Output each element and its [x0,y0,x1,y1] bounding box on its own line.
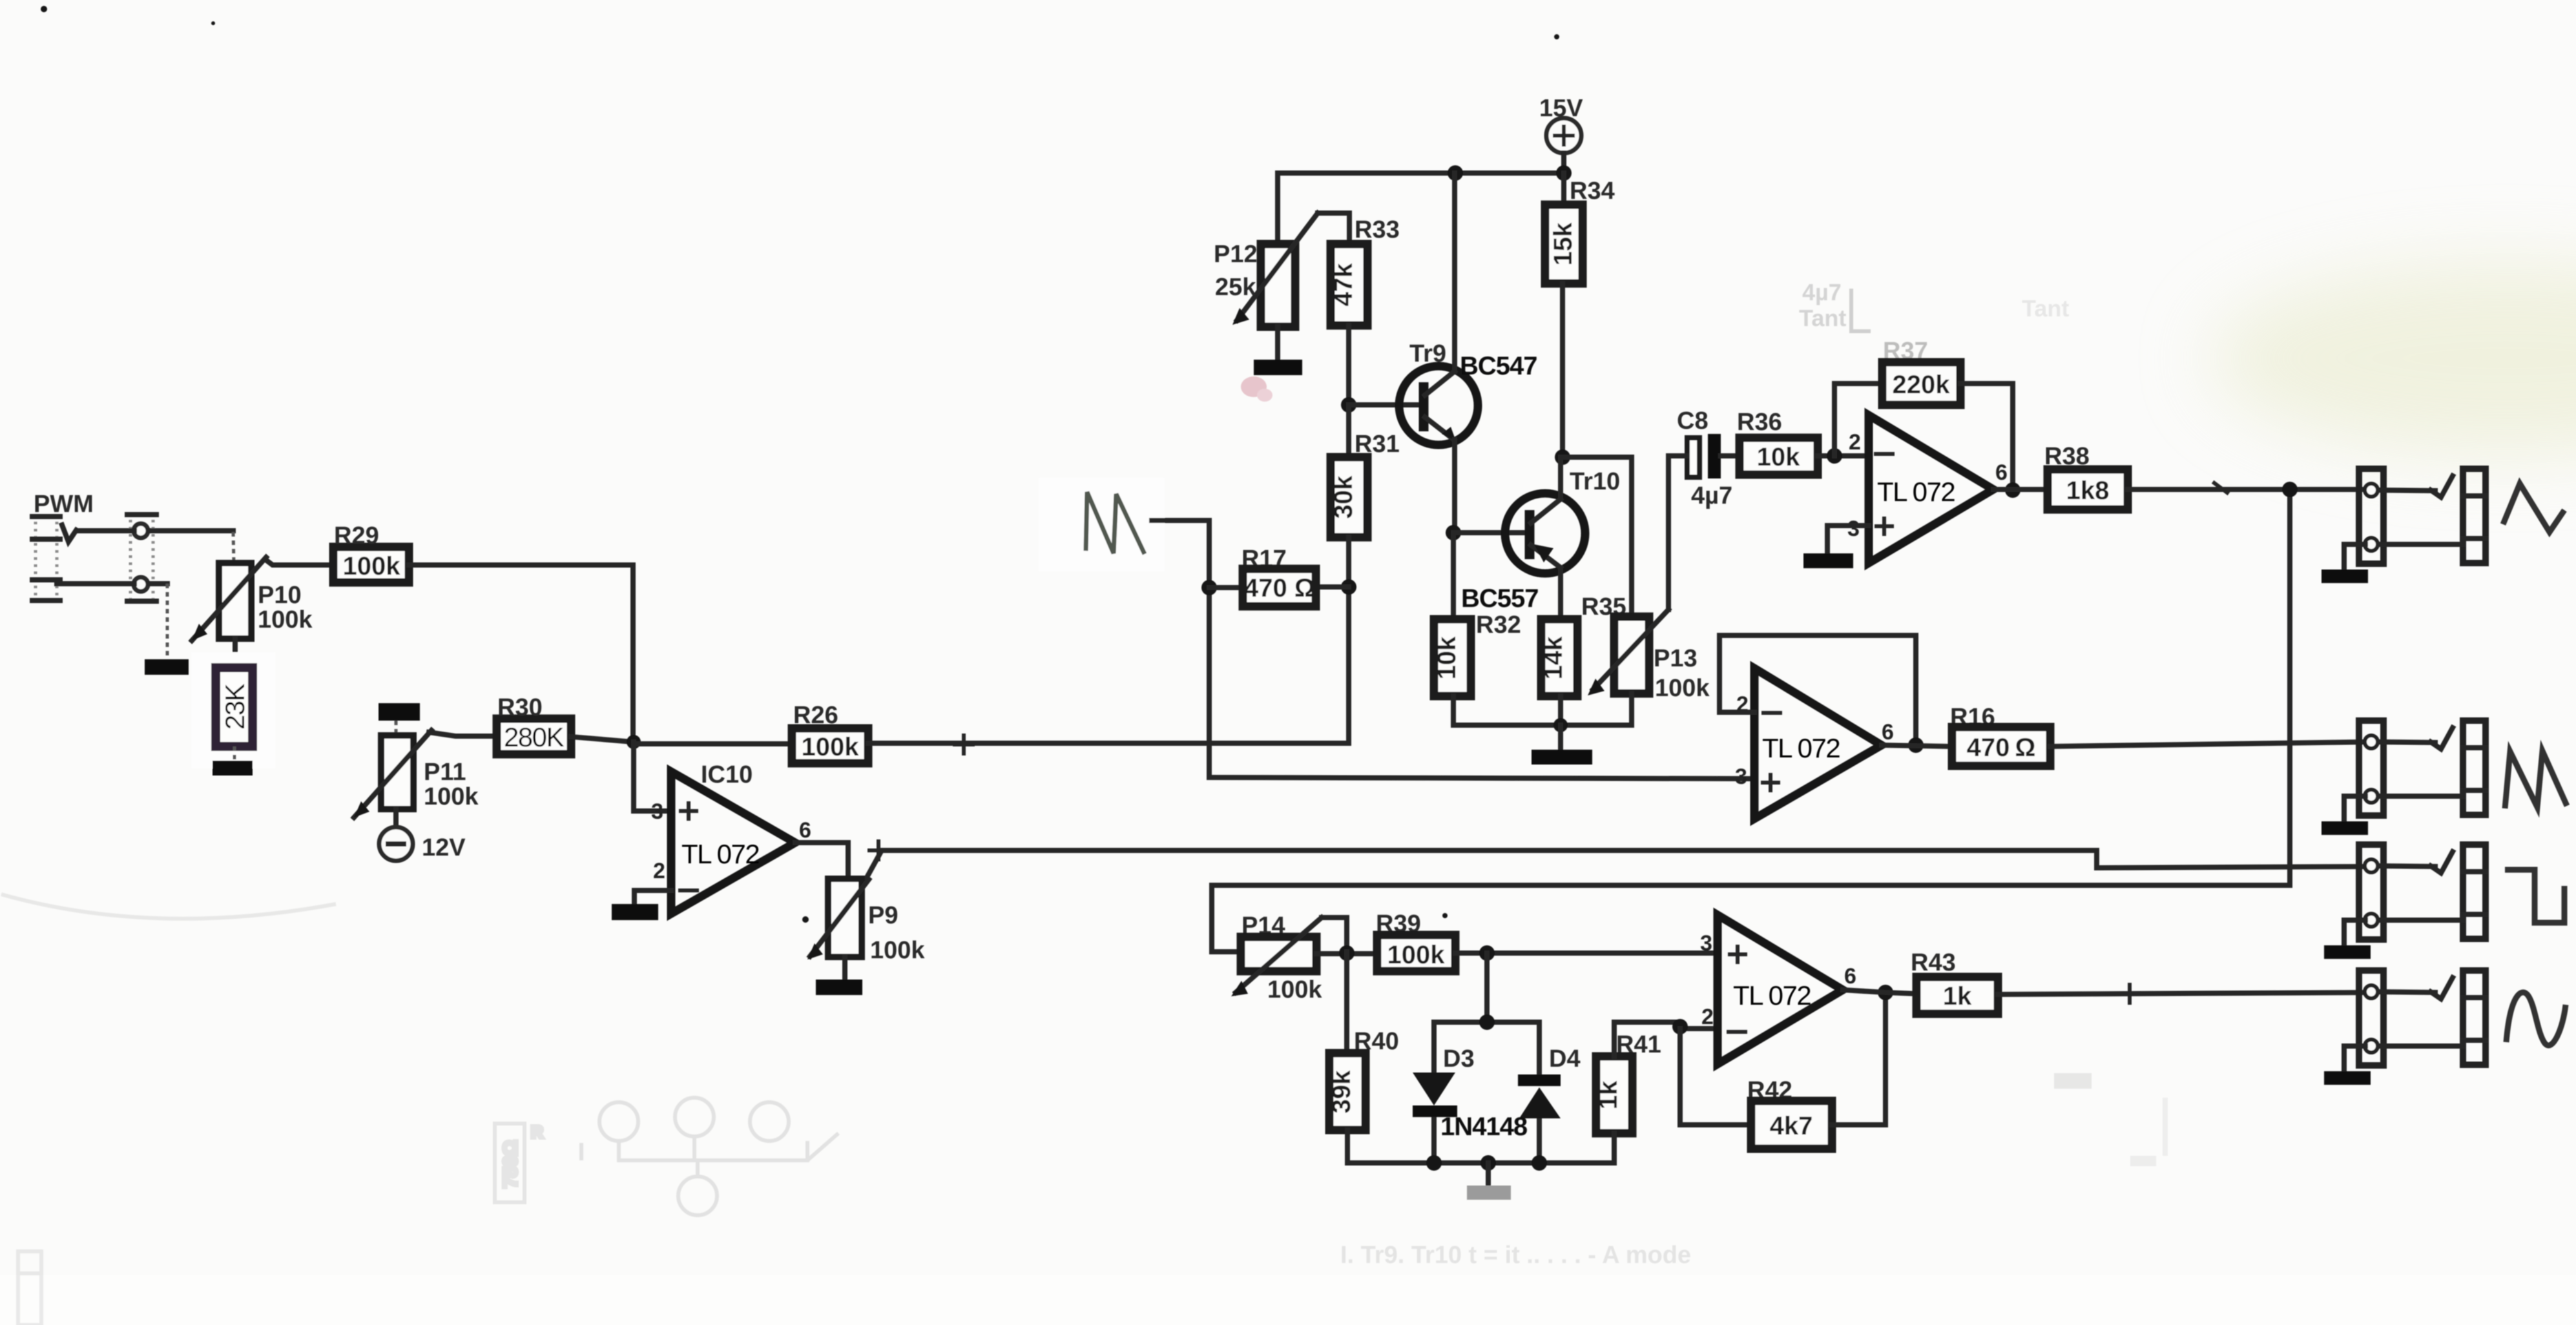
resistor R33 [1331,244,1367,325]
node op2 output [1908,737,1924,753]
svg-text:P12: P12 [1214,241,1258,268]
output jack J2 (sawtooth) [2359,721,2486,816]
node op4 output [1878,985,1893,1000]
node R34/Tr10/P13 [1555,449,1570,465]
wire bus corner to P14 [1212,949,1241,954]
15V supply symbol [1546,118,1581,153]
svg-text:100k: 100k [1387,941,1446,969]
node P14/R39/R40 [1339,945,1355,961]
svg-text:100k: 100k [1267,976,1322,1003]
svg-text:R36: R36 [1737,409,1782,436]
wire R41 bottom to rail [1612,1133,1617,1163]
svg-text:14k: 14k [1539,636,1568,679]
wire R16 to jack2 [2050,742,2367,746]
node R39/diodes [1479,945,1495,961]
node bottom rail [1553,718,1568,732]
wire R36 to op1 pin2 [1818,453,1869,458]
potentiometer P14 [1231,918,1322,996]
ghost resistor left-bottom [495,1122,543,1202]
svg-text:220k: 220k [1893,371,1951,399]
J2 tip contact [2365,735,2378,748]
wire R38 to jack1 [2128,487,2365,492]
ground under P9 [816,980,862,995]
wire Tr9 collector to rail [1452,173,1457,371]
resistor R26 [792,728,868,763]
output jack J4 (sine) [2359,971,2486,1065]
output jack J3 (square) [2359,845,2486,940]
potentiometer P10 [192,557,266,641]
bottom rail R32 R35 P13 [1453,693,1632,725]
J1 sleeve contact [2365,538,2378,551]
ghost 4u7 Tant note [1799,279,1871,331]
wire Tr10 emitter to R35 [1558,568,1563,619]
speck dots [1554,34,1559,39]
wire R40 to bottom rail [1347,1130,1614,1163]
svg-text:TL 072: TL 072 [1733,980,1811,1011]
cross tick on sine wire [2121,985,2139,1003]
triangle wave icon [2503,484,2564,532]
wire node to R26 [634,741,792,746]
wire P12 to ground [1275,327,1280,360]
svg-text:10k: 10k [1757,443,1800,471]
dotted stem P11 top [395,721,398,735]
ground stem VCO [1558,725,1563,750]
dotted drop to ground [166,584,169,659]
svg-text:15k: 15k [1549,222,1577,265]
wire P10 wiper to R29 [265,559,333,565]
op-amp U4 TL072 [1718,915,1843,1064]
svg-text:1k8: 1k8 [2066,477,2110,505]
svg-text:100k: 100k [802,733,860,761]
square bus step down to jack3 [2097,850,2367,868]
node op1 output [2005,482,2020,498]
wire op2 output to R16 [1882,745,1952,746]
resistor R31 [1346,405,1351,457]
svg-text:D3: D3 [1443,1045,1475,1073]
wire IC10 pin2 to ground [634,890,671,904]
gray ground bottom [1467,1186,1511,1200]
node Tr9/Tr10/R32 [1446,525,1461,540]
wire P14 to R39 [1316,951,1377,956]
ground under P12 [1254,360,1302,375]
J1 tip contact [2365,484,2378,497]
jog output to square bus [864,850,2097,882]
svg-text:Tant: Tant [1799,305,1846,331]
top supply rail [1278,170,1564,176]
J4 sleeve wire [2378,1043,2463,1049]
resistor R30 [497,719,571,754]
cross tick on wire [955,735,973,754]
svg-text:P13: P13 [1654,645,1698,672]
resistor R17 [1209,587,1349,588]
wire P12 riser [1275,173,1280,244]
pink scan smudge under P12 ground [1241,376,1272,402]
svg-text:6: 6 [1844,964,1856,989]
transistor Tr9 [1399,366,1478,445]
sine wave icon [2506,992,2566,1045]
node jack1 wire / triangle bus [2282,482,2298,497]
node at IC10 input [627,735,641,749]
wire R26 to integrator node [868,587,1349,743]
faint scan marks lower right [2054,1073,2165,1166]
wire base node to Tr9 [1349,402,1419,407]
ghost transistor cluster bottom [581,1098,838,1215]
wire node to P13 top [1563,457,1632,617]
svg-text:750Ω: 750Ω [500,1140,521,1188]
J4 ground link [2344,1046,2365,1071]
svg-text:6: 6 [1995,460,2008,485]
op-amp U1 TL072 [1869,415,1993,563]
svg-text:Tr10: Tr10 [1570,468,1620,495]
wire C8 to P13 wiper [1668,456,1687,610]
resistor 23K [216,668,253,746]
ground at J1 [2322,570,2368,583]
ground at op1 [1803,553,1853,568]
svg-text:30k: 30k [1329,475,1358,519]
J3 sleeve wire [2378,918,2463,923]
svg-text:10k: 10k [1433,636,1461,679]
svg-text:280K: 280K [504,722,565,752]
J1 switch wire and tick [2378,490,2435,491]
resistor R29 [333,547,409,582]
svg-text:4µ7: 4µ7 [1691,482,1732,509]
svg-text:R43: R43 [1911,949,1956,976]
svg-text:25k: 25k [1215,274,1256,301]
svg-text:100k: 100k [258,606,313,633]
capacitor C8 [1687,434,1721,478]
J3 switch wire and tick [2378,866,2435,867]
wire R41 top to op4 pin2 [1614,1022,1718,1056]
svg-text:TL 072: TL 072 [1877,477,1955,507]
svg-text:100k: 100k [343,552,401,580]
wire op1 output to R38 [1993,487,2048,492]
resistor R16 [1952,727,2050,766]
svg-text:470 Ω: 470 Ω [1967,734,2036,762]
svg-text:1N4148: 1N4148 [1440,1113,1528,1141]
J4 tip contact [2365,985,2378,998]
svg-text:100k: 100k [870,937,925,964]
wire R33 to Tr9 base node [1346,325,1351,405]
P14 wiper jog to output node [1322,918,1347,952]
svg-text:BC557: BC557 [1461,584,1539,613]
white patch behind 23K [191,652,275,768]
wire 15V to rail [1561,153,1566,173]
P12 wiper jog to R33 [1318,213,1349,244]
wire R43 to jack4 [1998,992,2367,994]
integrator loop bottom to op2 pin3 [1209,777,1754,779]
potentiometer P9 [807,879,869,960]
wire op1 pin3 to ground [1827,526,1869,553]
J3 sleeve contact [2365,914,2378,927]
sawtooth input waveform symbol [1086,492,1145,554]
svg-text:BC547: BC547 [1460,352,1537,380]
svg-text:2: 2 [1701,1005,1714,1029]
wire node down to R32 [1451,533,1456,619]
potentiometer P13 [1588,610,1668,695]
svg-text:R33: R33 [1355,216,1400,243]
potentiometer P11 [354,730,431,817]
ground stem bottom [1486,1163,1491,1186]
normalled switch jack [127,513,156,604]
dotted drop to P10 [233,532,234,563]
bar above P11 [379,703,420,721]
resistor R38 [2048,469,2128,509]
svg-text:R29: R29 [334,522,379,550]
J1 sleeve wire [2378,542,2463,547]
svg-text:1k: 1k [1943,982,1972,1011]
feedback riser op1 [1834,384,1882,456]
svg-text:Tr9: Tr9 [1409,340,1446,367]
svg-text:D4: D4 [1549,1045,1581,1073]
op-amp IC10 [671,772,795,914]
ground under VCO [1532,750,1592,765]
ground at IC10 [612,904,658,920]
diode D4 [1518,1022,1561,1163]
wire saw symbol to R17 loop [1152,520,1209,777]
wire R40 drop [1344,952,1349,1053]
wire Tr10 collector up [1558,457,1563,499]
ground under input jack [145,659,189,675]
feedback return op4 [1832,992,1885,1125]
wire node to IC10 pin3 [634,742,671,811]
svg-text:P11: P11 [424,759,466,786]
feedback drop op4 [1680,1029,1751,1125]
J3 tip contact [2365,859,2378,872]
wire IC10 output to P9 [795,843,848,879]
diode top rail [1434,1020,1539,1025]
resistor R34 [1561,173,1566,205]
output jack J1 (triangle) [2359,469,2486,564]
vertical drop jack1 node to triangle bus [2287,489,2292,885]
resistor R40 [1329,1053,1366,1130]
sawtooth wave icon [2505,751,2567,808]
wire P10 bottom to 23K [233,639,238,668]
square wave icon [2505,870,2564,923]
svg-text:39k: 39k [1327,1070,1356,1113]
svg-text:3: 3 [1700,931,1712,956]
svg-text:Tant: Tant [2022,295,2069,322]
svg-text:R30: R30 [497,694,543,721]
node rail/R34 [1556,165,1572,181]
wire PWM top contact to P10 [78,528,233,533]
J2 switch wire and tick [2378,742,2435,743]
wire C8 to R36 [1721,453,1740,458]
svg-text:12V: 12V [422,834,466,861]
wire P11 wiper to R30 [429,732,497,736]
svg-text:P10: P10 [258,582,302,609]
resistor R42 [1751,1101,1832,1149]
resistor R32 [1434,619,1471,696]
resistor R39 [1377,935,1455,971]
wire R34 to Tr10 collector node [1560,283,1565,457]
node R31/R17 [1341,579,1356,595]
J4 switch wire and tick [2378,992,2435,992]
svg-text:23K: 23K [220,683,250,730]
wire node down to diode rail [1484,953,1490,1022]
svg-text:4µ7: 4µ7 [1802,279,1842,305]
svg-text:3: 3 [1735,765,1747,789]
transistor Tr10 [1505,493,1585,573]
diode D3 [1413,1022,1457,1163]
wire R39 to op4 pin3 [1455,950,1718,956]
resistor R35 [1541,619,1577,696]
ghost jack bottom-left corner [18,1251,41,1325]
nodes on bottom rail [1426,1155,1442,1171]
svg-text:6: 6 [799,818,811,843]
triangle bus from P14 loop up and right to jack1 drop [1212,885,2290,952]
wire Tr9 emitter down [1452,440,1457,533]
wire R29 to IC10 node [409,565,633,741]
svg-text:PWM: PWM [34,491,94,518]
J2 sleeve wire [2378,794,2463,799]
J3 ground link [2344,920,2365,945]
wire R30 to node [571,737,633,742]
wire PWM sleeve to ground [57,581,167,586]
svg-text:47k: 47k [1329,263,1358,306]
svg-text:2: 2 [1849,430,1861,455]
J1 ground link [2344,544,2365,570]
J4 sleeve contact [2365,1040,2378,1053]
resistor R43 [1916,977,1998,1014]
svg-text:2: 2 [653,859,665,883]
resistor R36 [1740,438,1818,475]
svg-text:TL 072: TL 072 [1762,733,1840,763]
node op1 inverting input [1827,448,1842,464]
svg-text:100k: 100k [424,783,479,810]
svg-text:C8: C8 [1677,407,1709,435]
svg-text:100k: 100k [1655,675,1710,702]
node R17 left [1201,580,1217,595]
wire P9 to ground [842,957,847,980]
jack contact circles [134,524,148,538]
potentiometer P12 [1232,213,1318,327]
white patch behind saw symbol [1039,478,1165,571]
ground at J4 [2324,1071,2371,1085]
node rail/Tr9 [1448,165,1463,181]
svg-text:P9: P9 [868,902,898,929]
node op4 inverting [1672,1019,1688,1034]
ghost page-bleed arc bottom-left [1,894,336,919]
svg-text:3: 3 [1847,517,1860,541]
svg-text:IC10: IC10 [701,761,753,788]
ground at J3 [2324,945,2371,959]
feedback loop op2 [1719,635,1916,745]
svg-text:3: 3 [651,799,663,824]
svg-text:R: R [531,1122,543,1142]
svg-text:R26: R26 [793,702,838,729]
wire R31 to R17 node [1346,537,1351,587]
resistor R37 [1882,362,1960,405]
resistor R41 [1596,1056,1632,1133]
svg-text:1k: 1k [1594,1080,1623,1109]
node diode rail [1479,1014,1495,1030]
cross tick on square bus [869,841,888,859]
jack tip contact tick [62,525,76,542]
wire P11 to -12V [393,809,399,827]
svg-text:4k7: 4k7 [1770,1112,1813,1140]
J2 sleeve contact [2365,790,2378,803]
svg-text:R32: R32 [1476,611,1521,639]
node R33/R31/base [1341,397,1356,413]
svg-text:I. Tr9. Tr10 t = it .. .: I. Tr9. Tr10 t = it .. . . . - A mode [1340,1242,1691,1269]
J2 ground link [2344,796,2365,821]
cross tick on jack1 wire [2214,483,2227,493]
-12V source symbol [379,827,413,861]
feedback return op1 [1960,384,2013,490]
wire node to Tr10 base [1453,530,1526,535]
input jack socket (dashed) [32,515,60,603]
op-amp U2 TL072 [1754,668,1882,819]
svg-text:TL 072: TL 072 [681,839,759,869]
dotted stem and ground under 23K [233,746,236,761]
svg-text:6: 6 [1882,720,1894,745]
ground at J2 [2322,821,2368,835]
svg-text:470 Ω: 470 Ω [1244,574,1315,602]
wire op4 output to R43 [1843,990,1916,994]
